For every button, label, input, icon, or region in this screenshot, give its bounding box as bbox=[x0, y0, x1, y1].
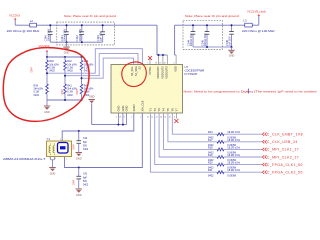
svg-text:GND: GND bbox=[89, 96, 95, 99]
resistor R19 bbox=[217, 156, 224, 159]
svg-text:R21: R21 bbox=[208, 168, 213, 172]
svg-text:C_MPI_CLK1_27: C_MPI_CLK1_27 bbox=[267, 148, 299, 152]
svg-text:Y7: Y7 bbox=[175, 108, 179, 112]
svg-text:0402: 0402 bbox=[208, 173, 214, 177]
svg-text:50V: 50V bbox=[83, 181, 88, 183]
svg-text:GND: GND bbox=[64, 52, 70, 55]
svg-text:VDDOUT1: VDDOUT1 bbox=[156, 66, 160, 79]
svg-text:18.2R ±1%: 18.2R ±1% bbox=[227, 153, 240, 157]
svg-text:Y1: Y1 bbox=[47, 137, 51, 141]
svg-text:Y4: Y4 bbox=[162, 108, 166, 112]
resistor R18 bbox=[217, 148, 224, 151]
wire C_MPI_CLK2_27 feed bbox=[159, 113, 217, 157]
ground (left cap group) bbox=[66, 42, 68, 46]
svg-text:GND: GND bbox=[44, 111, 50, 114]
svg-text:220 Ohms @ 100 MHz: 220 Ohms @ 100 MHz bbox=[242, 29, 275, 33]
svg-text:1uF 16V: 1uF 16V bbox=[99, 31, 103, 41]
ground (resistor matrix) bbox=[46, 100, 48, 106]
svg-text:Y5: Y5 bbox=[166, 108, 170, 112]
svg-text:100nF 16V: 100nF 16V bbox=[46, 28, 50, 41]
svg-text:L3: L3 bbox=[244, 19, 248, 23]
svg-text:12: 12 bbox=[156, 116, 158, 118]
svg-text:C_FPGA_CLK2_50: C_FPGA_CLK2_50 bbox=[267, 171, 303, 175]
svg-text:8pF: 8pF bbox=[83, 177, 88, 179]
svg-text:GND: GND bbox=[50, 172, 56, 175]
svg-text:S2: S2 bbox=[138, 66, 142, 70]
svg-text:19: 19 bbox=[159, 63, 161, 65]
svg-text:9: 9 bbox=[174, 116, 175, 118]
wire cap bottoms (left group) bbox=[50, 41, 102, 43]
svg-text:GND: GND bbox=[125, 106, 129, 112]
resistor R20 bbox=[217, 163, 224, 166]
wire XOUT net bbox=[62, 113, 134, 141]
svg-text:0402: 0402 bbox=[67, 70, 73, 73]
ground (C41) bbox=[76, 189, 82, 190]
svg-text:1uF 16V: 1uF 16V bbox=[228, 36, 232, 46]
wire C_MPI_CLK2_27 out bbox=[224, 156, 262, 158]
svg-text:Note: Need to be programmed to: Note: Need to be programmed to Digikey [… bbox=[184, 90, 317, 94]
IC U7 CDCE937PWR bbox=[111, 65, 183, 114]
capacitor C144 bbox=[192, 25, 194, 31]
wire S2 net bbox=[47, 49, 142, 73]
svg-text:R18: R18 bbox=[208, 145, 213, 149]
svg-text:GND: GND bbox=[76, 157, 82, 160]
svg-text:50V: 50V bbox=[83, 146, 88, 148]
svg-text:C_CLK_USB_24: C_CLK_USB_24 bbox=[267, 140, 298, 144]
svg-text:1: 1 bbox=[140, 116, 141, 118]
svg-text:VDDOUT2: VDDOUT2 bbox=[160, 66, 164, 79]
wire C_FPGA_CLK2_50 feed bbox=[150, 113, 217, 172]
svg-text:2: 2 bbox=[131, 116, 132, 118]
svg-text:S0_SCL: S0_SCL bbox=[130, 66, 134, 76]
svg-text:VCC1V8_clock: VCC1V8_clock bbox=[247, 10, 266, 14]
svg-text:Y3: Y3 bbox=[157, 108, 161, 112]
wire C_FPGA_CLK1_50 feed bbox=[155, 113, 217, 165]
svg-text:DNP: DNP bbox=[31, 67, 34, 73]
no-connect X on Y7 bbox=[176, 113, 178, 119]
wire VDDOUT tie (1V8) bbox=[174, 25, 176, 55]
svg-text:VDDOUT3: VDDOUT3 bbox=[165, 66, 169, 79]
svg-text:R17: R17 bbox=[208, 138, 213, 142]
wire C_MPI_CLK1_27 feed bbox=[164, 113, 218, 149]
svg-text:0402: 0402 bbox=[49, 70, 55, 73]
wire XIN net bbox=[65, 113, 143, 168]
dashed box (left decoupling group) bbox=[57, 22, 115, 45]
svg-text:DNP: DNP bbox=[61, 89, 64, 95]
svg-text:DNP: DNP bbox=[76, 89, 79, 95]
capacitor C142 bbox=[81, 25, 83, 32]
svg-text:8pF: 8pF bbox=[83, 142, 88, 144]
svg-text:18.2R ±1%: 18.2R ±1% bbox=[227, 168, 240, 172]
node C_FPGA_CLK2_50 bbox=[262, 171, 266, 174]
svg-text:ABM3-24.000MHZ-D1G-T: ABM3-24.000MHZ-D1G-T bbox=[3, 157, 46, 161]
resistor R24 bbox=[217, 133, 224, 136]
capacitor C140 bbox=[49, 25, 51, 32]
ground (IC GND pins) bbox=[91, 103, 93, 124]
node C_MPI_CLK2_27 bbox=[262, 155, 266, 158]
wire pull-up rail bbox=[47, 56, 82, 58]
svg-text:R20: R20 bbox=[208, 161, 213, 165]
svg-text:C_MPI_CLK2_27: C_MPI_CLK2_27 bbox=[267, 155, 299, 159]
ground (crystal) bbox=[50, 157, 52, 160]
svg-text:Note: Place near IC pin and gr: Note: Place near IC pin and ground bbox=[185, 14, 239, 18]
wire VCC3V3 rail to IC bbox=[15, 24, 157, 26]
svg-text:DNP: DNP bbox=[73, 144, 76, 149]
svg-text:2: 2 bbox=[49, 158, 50, 160]
svg-text:GND: GND bbox=[121, 106, 125, 112]
svg-text:18.2R ±1%: 18.2R ±1% bbox=[227, 130, 240, 134]
red circle annotation (S0_SCL/S1_SDA) bbox=[122, 62, 147, 87]
wire C_FPGA_CLK2_50 out bbox=[224, 171, 262, 173]
svg-text:XOUT: XOUT bbox=[132, 104, 136, 112]
wire S1 net bbox=[65, 54, 138, 76]
node C_CLK_ENBT_1V8 bbox=[262, 133, 266, 136]
wire C_MPI_CLK1_27 out bbox=[224, 148, 262, 150]
wire C_CLK_ENBT_1V8 feed bbox=[172, 113, 217, 134]
svg-text:DNP: DNP bbox=[73, 180, 76, 185]
svg-text:VDD: VDD bbox=[174, 66, 178, 72]
svg-text:1: 1 bbox=[66, 158, 67, 160]
wire C_CLK_ENBT_1V8 out bbox=[224, 133, 262, 135]
svg-text:0.063W: 0.063W bbox=[227, 173, 236, 177]
svg-text:C_FPGA_CLK1_50: C_FPGA_CLK1_50 bbox=[267, 163, 303, 167]
svg-text:VCC3V3: VCC3V3 bbox=[9, 14, 20, 18]
svg-text:18: 18 bbox=[155, 63, 157, 65]
resistor R43 bbox=[81, 78, 83, 84]
resistor R44 bbox=[81, 57, 83, 60]
svg-text:0402: 0402 bbox=[34, 94, 40, 97]
svg-text:0402: 0402 bbox=[83, 149, 89, 151]
svg-text:11: 11 bbox=[151, 116, 153, 118]
svg-text:18.2R ±1%: 18.2R ±1% bbox=[227, 138, 240, 142]
resistor R34 bbox=[46, 73, 48, 84]
svg-text:100nF 16V: 100nF 16V bbox=[203, 33, 207, 46]
svg-text:7: 7 bbox=[135, 63, 136, 65]
node C_CLK_USB_24 bbox=[262, 140, 266, 143]
svg-text:3: 3 bbox=[116, 116, 117, 118]
svg-text:GND: GND bbox=[76, 194, 82, 197]
ground (C40) bbox=[76, 152, 82, 153]
wire C_FPGA_CLK1_50 out bbox=[224, 164, 262, 166]
capacitor C40 bbox=[78, 131, 80, 141]
wire GND pins tie bbox=[117, 113, 119, 125]
svg-text:VCTRL: VCTRL bbox=[148, 66, 152, 75]
svg-text:18.2R ±1%: 18.2R ±1% bbox=[227, 145, 240, 149]
big red circle annotation (address resistors) bbox=[3, 48, 89, 122]
svg-text:XIN_CLK: XIN_CLK bbox=[140, 100, 144, 111]
svg-text:18.2R ±1%: 18.2R ±1% bbox=[227, 161, 240, 165]
svg-text:5: 5 bbox=[147, 63, 148, 65]
capacitor C145 bbox=[206, 25, 208, 31]
svg-text:GND: GND bbox=[117, 106, 121, 112]
svg-text:4: 4 bbox=[174, 63, 175, 65]
svg-text:100nF 16V: 100nF 16V bbox=[189, 33, 193, 46]
resistor R40 bbox=[46, 57, 48, 60]
svg-text:L2: L2 bbox=[30, 19, 34, 23]
svg-text:20: 20 bbox=[164, 63, 166, 65]
svg-text:S1_SDA: S1_SDA bbox=[134, 66, 138, 76]
svg-text:Y6: Y6 bbox=[170, 108, 174, 112]
wire C_CLK_USB_24 out bbox=[224, 141, 262, 143]
resistor R21 bbox=[217, 171, 224, 174]
svg-text:14: 14 bbox=[164, 116, 166, 118]
svg-text:4: 4 bbox=[55, 158, 56, 160]
svg-text:3: 3 bbox=[60, 139, 61, 141]
svg-text:C40: C40 bbox=[83, 138, 88, 140]
node C_MPI_CLK1_27 bbox=[262, 148, 266, 151]
capacitor C41 bbox=[78, 168, 80, 177]
dashed box (right decoupling group) bbox=[183, 21, 223, 50]
ground (right cap group) bbox=[231, 47, 233, 50]
svg-text:C41: C41 bbox=[83, 174, 88, 176]
node C_FPGA_CLK1_50 bbox=[262, 163, 266, 166]
resistor R41 bbox=[64, 76, 66, 84]
capacitor C141 bbox=[66, 25, 68, 32]
wire cap bottoms (right group) bbox=[193, 46, 232, 48]
svg-text:13: 13 bbox=[160, 116, 162, 118]
svg-text:Note: Place near IC pin and gr: Note: Place near IC pin and ground bbox=[64, 14, 116, 18]
svg-text:10: 10 bbox=[147, 116, 149, 118]
svg-text:R24: R24 bbox=[208, 130, 213, 134]
svg-text:GND: GND bbox=[229, 55, 235, 58]
wire S0 net bbox=[82, 58, 134, 78]
svg-text:R19: R19 bbox=[208, 153, 213, 157]
wire pull-down rail bbox=[47, 99, 82, 101]
capacitor C146 bbox=[231, 25, 233, 31]
svg-text:100nF 16V: 100nF 16V bbox=[63, 28, 67, 41]
capacitor C143 bbox=[102, 25, 104, 32]
svg-text:Y2: Y2 bbox=[153, 108, 157, 112]
svg-text:0402: 0402 bbox=[67, 94, 73, 97]
wire VCC1V8 rail bbox=[175, 24, 259, 26]
svg-text:220 Ohms @ 100 MHz: 220 Ohms @ 100 MHz bbox=[7, 29, 40, 33]
wire VDD tie (3V3) bbox=[156, 25, 158, 55]
svg-text:15: 15 bbox=[169, 116, 171, 118]
svg-text:D-TSSOP: D-TSSOP bbox=[185, 72, 198, 76]
resistor R17 bbox=[217, 140, 224, 143]
pin VCTRL stub with no-connect X bbox=[149, 59, 151, 65]
resistor R42 bbox=[64, 57, 66, 60]
wire C_CLK_USB_24 feed bbox=[168, 113, 217, 142]
svg-text:16: 16 bbox=[119, 116, 121, 118]
svg-text:C_CLK_ENBT_1V8: C_CLK_ENBT_1V8 bbox=[267, 133, 303, 137]
svg-text:0402: 0402 bbox=[83, 185, 89, 187]
svg-text:Y1: Y1 bbox=[149, 108, 153, 112]
svg-text:100nF 16V: 100nF 16V bbox=[78, 28, 82, 41]
